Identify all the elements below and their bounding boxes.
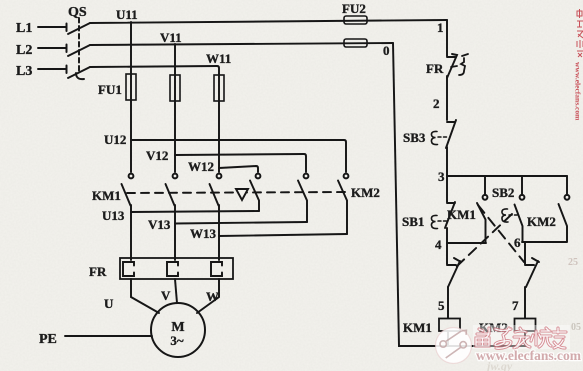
arrow L3 xyxy=(66,66,68,74)
svg-text:6: 6 xyxy=(514,235,521,250)
contact KM2 pole 2 blade xyxy=(298,181,307,223)
fuse FU2 upper xyxy=(344,16,367,24)
wire column W11 xyxy=(218,74,220,172)
svg-text:2: 2 xyxy=(433,96,440,111)
svg-text:V11: V11 xyxy=(160,30,182,45)
wire column V11 xyxy=(174,44,176,172)
svg-text:U12: U12 xyxy=(104,132,126,147)
contact KM2 aux blade xyxy=(559,204,568,242)
motor M circle xyxy=(151,303,205,357)
wire L1 feed xyxy=(38,26,66,28)
wire W to FR xyxy=(218,205,220,260)
wire bus L3 xyxy=(90,66,219,74)
wire KM2 aux branch xyxy=(566,176,568,195)
svg-text:jw.gy: jw.gy xyxy=(485,359,513,371)
wire FR to motor W xyxy=(197,279,219,313)
contact KM1 pole 2 blade xyxy=(166,184,175,206)
wire node2-3 xyxy=(446,147,448,176)
relay FR element U xyxy=(123,262,134,276)
wire SB2 branch xyxy=(521,176,523,195)
watermark logo elecfans disc xyxy=(436,328,472,364)
wire coil KM1 bottom xyxy=(447,331,449,346)
svg-text:3: 3 xyxy=(438,169,445,184)
svg-text:0: 0 xyxy=(383,43,390,58)
contact KM1 pole 3 blade xyxy=(210,184,219,206)
wire row U12 xyxy=(131,140,346,172)
svg-text:4: 4 xyxy=(435,237,442,252)
wire node4 down xyxy=(446,243,448,264)
wire to node 7 xyxy=(524,287,526,318)
wire bus L1 top xyxy=(90,20,447,23)
svg-text:1: 1 xyxy=(437,20,444,35)
wire KM1 aux branch xyxy=(484,176,486,195)
wire column U11 xyxy=(130,22,132,172)
svg-text:L2: L2 xyxy=(16,43,32,58)
button SB3 cap xyxy=(431,131,437,144)
contact KM1 pole 1 blade xyxy=(122,184,131,206)
button SB3 NC contact xyxy=(446,120,456,148)
svg-text:U13: U13 xyxy=(102,208,125,223)
wire SB1 to node4 xyxy=(446,228,448,243)
contact SB2 hook xyxy=(520,195,525,200)
svg-text:KM2: KM2 xyxy=(351,185,380,200)
arrow L1 xyxy=(66,24,68,32)
arrow L2 xyxy=(66,45,68,53)
wire row U13 xyxy=(131,211,259,212)
svg-text:FU1: FU1 xyxy=(98,82,122,97)
svg-text:PE: PE xyxy=(39,332,57,347)
wire node6 down xyxy=(524,242,526,264)
svg-text:KM2: KM2 xyxy=(527,214,556,229)
contact KM1 interlock NC xyxy=(525,258,539,287)
button SB1 NC contact xyxy=(445,202,455,228)
fuse FU1 phase V xyxy=(170,75,180,101)
svg-text:QS: QS xyxy=(68,5,87,20)
contact KM1 aux hook xyxy=(483,195,488,200)
relay FR element V xyxy=(167,262,178,276)
svg-text:5: 5 xyxy=(438,298,445,313)
wire node1-2 xyxy=(446,76,448,120)
relay FR heater box xyxy=(120,258,233,279)
contact KM2 aux hook xyxy=(565,195,570,200)
wire U to FR xyxy=(130,205,132,260)
wire FR to motor V xyxy=(175,279,177,303)
svg-text:V12: V12 xyxy=(146,148,168,163)
wire row W12 xyxy=(219,166,258,172)
switch QS pole 2 blade xyxy=(68,45,90,56)
wire coil KM2 bottom xyxy=(524,331,526,346)
button SB2 link dashed xyxy=(509,214,517,216)
switch QS handle hook xyxy=(76,73,84,79)
wire node4 rail xyxy=(447,242,486,244)
contact KM1 pole 1 hook xyxy=(129,174,134,179)
wire row W13 xyxy=(219,234,347,236)
svg-text:FR: FR xyxy=(426,61,444,76)
fuse FU1 phase W xyxy=(214,75,224,101)
button SB1 link dashed xyxy=(438,220,447,222)
button SB1 cap xyxy=(431,215,437,228)
switch QS pole 1 blade xyxy=(68,23,90,34)
svg-text:KM1: KM1 xyxy=(447,207,476,222)
switch QS pole 3 blade xyxy=(68,67,90,78)
linkage dashed KM1-KM2 xyxy=(127,192,350,193)
fuse FU1 phase U xyxy=(126,74,136,100)
button SB2 cap xyxy=(502,209,508,222)
svg-text:KM1: KM1 xyxy=(92,188,121,203)
svg-text:3~: 3~ xyxy=(170,333,184,348)
watermark right edge vertical xyxy=(574,9,583,121)
svg-text:05: 05 xyxy=(571,322,581,333)
wire node3 rail xyxy=(447,175,567,177)
svg-text:W11: W11 xyxy=(206,51,231,66)
svg-text:SB1: SB1 xyxy=(402,214,424,229)
linkage dashed SB1-KM1NC xyxy=(478,205,524,262)
wire V to FR xyxy=(174,205,176,260)
button SB3 link dashed xyxy=(438,136,447,138)
linkage triangle xyxy=(236,189,248,200)
wire row V13 xyxy=(175,222,307,224)
contact KM1 pole 2 hook xyxy=(173,174,178,179)
svg-text:SB3: SB3 xyxy=(403,130,426,145)
svg-text:V: V xyxy=(161,288,171,303)
svg-text:FU2: FU2 xyxy=(342,1,366,16)
wire PE xyxy=(65,335,152,337)
svg-text:25: 25 xyxy=(568,257,578,268)
fuse FU2 lower xyxy=(344,39,367,47)
wire node6 rail xyxy=(522,241,567,243)
svg-text:V13: V13 xyxy=(148,217,171,232)
wire FR to motor U xyxy=(131,279,159,313)
contact KM2 pole 1 hook xyxy=(256,174,261,179)
linkage dashed SB2-KM2NC xyxy=(455,214,512,268)
wire row V12 xyxy=(175,154,306,172)
switch QS linkage dashed xyxy=(78,18,80,74)
contact KM1 aux blade xyxy=(477,203,486,243)
coil KM1 xyxy=(439,319,460,332)
wire L2 feed xyxy=(38,47,66,49)
contact KM2 pole 1 blade xyxy=(250,181,259,212)
relay FR thermal symbol xyxy=(451,54,468,75)
relay FR element W xyxy=(211,262,222,276)
contact KM2 pole 3 blade xyxy=(338,181,347,235)
wire bus L2 xyxy=(90,43,393,45)
relay FR NC contact xyxy=(447,54,457,78)
svg-text:7: 7 xyxy=(512,298,519,313)
contact KM2 pole 2 hook xyxy=(304,174,309,179)
wire to node 5 xyxy=(447,287,449,318)
button SB2 NO contact blade xyxy=(515,205,523,242)
svg-text:L1: L1 xyxy=(16,21,32,36)
wire neutral 0 xyxy=(393,43,526,346)
svg-text:W13: W13 xyxy=(190,226,217,241)
svg-text:W12: W12 xyxy=(188,159,214,174)
contact KM1 pole 3 hook xyxy=(217,174,222,179)
wire L3 feed xyxy=(38,68,66,70)
watermark text dianzifashaoyou xyxy=(473,325,570,349)
wire SB1 branch upper xyxy=(446,176,448,202)
svg-text:L3: L3 xyxy=(16,64,32,79)
contact KM2 pole 3 hook xyxy=(344,174,349,179)
svg-text:U11: U11 xyxy=(116,7,138,22)
svg-text:U: U xyxy=(104,296,114,311)
wire control phase down xyxy=(446,20,448,56)
contact KM2 interlock NC xyxy=(447,258,461,287)
svg-text:SB2: SB2 xyxy=(492,185,514,200)
coil KM2 xyxy=(515,319,536,332)
svg-text:FR: FR xyxy=(89,264,107,279)
svg-text:www.elecfans.com: www.elecfans.com xyxy=(574,62,583,121)
svg-text:KM1: KM1 xyxy=(403,320,432,335)
